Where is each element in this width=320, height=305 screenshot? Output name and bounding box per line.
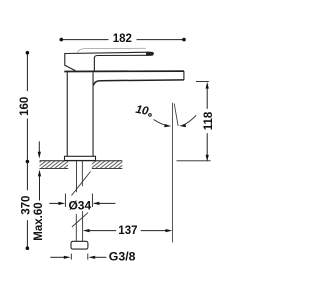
water stream vertical line	[172, 103, 174, 243]
dimension 370 end dot	[26, 246, 30, 250]
dimension Max.60 upper leader with down arrow	[38, 141, 41, 158]
svg-text:Ø34: Ø34	[68, 198, 91, 212]
body column left edge	[66, 72, 68, 156]
dimension Max.60 lower leader with up arrow	[38, 170, 41, 201]
countertop deck bottom line	[40, 167, 123, 169]
supply hose left line	[75, 214, 77, 241]
svg-text:118: 118	[203, 111, 215, 130]
faucet handle lever blade top edge (faint)	[78, 48, 147, 52]
svg-text:182: 182	[113, 33, 132, 45]
countertop deck hatched left part	[40, 161, 69, 169]
upper pipe break slash	[72, 172, 91, 196]
countertop deck hatched right part	[92, 161, 123, 169]
faucet handle lever blade bottom edge with tip and cartridge housing	[65, 52, 154, 71]
svg-text:160: 160	[19, 97, 31, 116]
dimension G3/8 extension ticks under nut	[71, 254, 88, 260]
svg-text:10: 10	[135, 103, 151, 118]
dimension O34 extension ticks	[65, 194, 92, 208]
spout underside	[93, 80, 184, 86]
dimension 182 end dots	[60, 38, 64, 42]
dimension 118 line with arrows	[206, 82, 209, 162]
countertop deck top line	[40, 160, 123, 162]
dimension 118 extension lines	[177, 82, 211, 161]
dimension 137 line with arrows	[83, 229, 173, 232]
svg-text:Max.60: Max.60	[33, 202, 45, 240]
spout tip right edge	[183, 71, 185, 80]
angle arc left with arrowhead	[154, 120, 172, 128]
svg-text:G3/8: G3/8	[109, 250, 136, 264]
faucet base plate	[65, 156, 96, 160]
svg-text:370: 370	[21, 196, 33, 215]
spout top edge	[64, 70, 184, 72]
dimension 160 end dots	[26, 51, 30, 55]
dimension O34 right arrow	[93, 202, 116, 205]
svg-text:137: 137	[118, 225, 137, 237]
dimension O34 left arrow	[49, 202, 65, 205]
body column right edge	[92, 72, 94, 156]
faucet handle left edge and chamfer	[65, 53, 76, 71]
connection nut	[71, 241, 88, 249]
dimension 182 line	[61, 39, 184, 41]
threaded shank right line	[81, 161, 83, 187]
lower pipe break slash	[72, 213, 88, 227]
dimension 160 line	[26, 53, 28, 162]
angle arc right with arrowhead	[179, 115, 196, 127]
dimension G3/8 right arrow	[88, 256, 106, 259]
dimension 370 line	[26, 162, 28, 249]
faucet handle blade solid tip	[146, 52, 154, 56]
supply hose right line	[82, 211, 84, 241]
dimension G3/8 left arrow	[50, 256, 70, 259]
threaded shank left line	[75, 161, 77, 193]
water stream 10 degree tilted line	[174, 104, 178, 126]
